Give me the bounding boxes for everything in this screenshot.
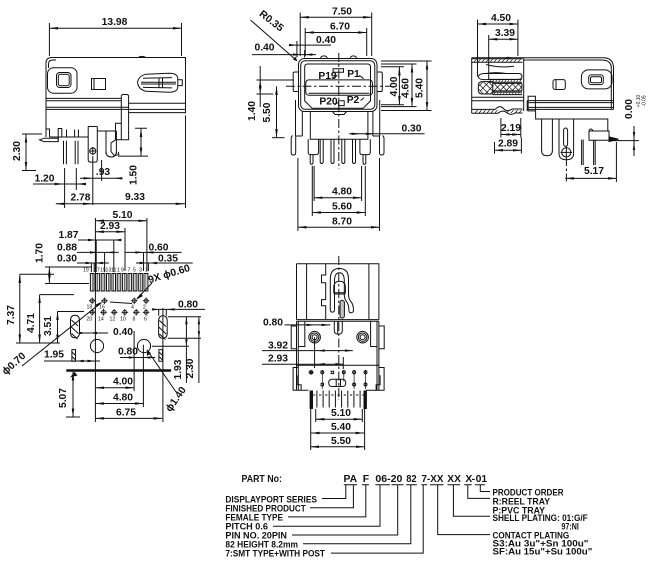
svg-text:9.33: 9.33 bbox=[125, 192, 145, 203]
view D pin numbers top bbox=[83, 268, 148, 274]
view B center lines bbox=[286, 85, 391, 87]
view D upper holes bbox=[89, 298, 150, 305]
dim 7.50 bbox=[300, 16, 372, 18]
view E center stadium bbox=[329, 379, 346, 386]
svg-text:01: 01 bbox=[476, 474, 488, 485]
svg-text:10: 10 bbox=[120, 317, 126, 323]
dim 0.40 (view D) bbox=[80, 332, 108, 334]
svg-text:0.40: 0.40 bbox=[316, 35, 336, 46]
view C mid verticals bbox=[524, 58, 528, 111]
svg-text:2: 2 bbox=[143, 305, 146, 311]
dim 13.98 bbox=[49, 23, 181, 56]
view A left boss bbox=[48, 68, 78, 93]
view B shell bottom bump bbox=[333, 112, 347, 115]
dim 0.35 bbox=[136, 262, 193, 264]
view B side ears bbox=[293, 72, 298, 92]
dim 0.30 right (view B) bbox=[349, 133, 424, 135]
view E pad row 2 bbox=[321, 383, 323, 385]
svg-text:2.93: 2.93 bbox=[100, 221, 120, 232]
view A foot plate bbox=[40, 138, 59, 141]
svg-text:4.00: 4.00 bbox=[389, 76, 400, 96]
view E center slot opening bbox=[334, 321, 342, 334]
svg-text:7-XX: 7-XX bbox=[422, 474, 444, 485]
view E teeth comb bbox=[311, 391, 365, 410]
dim 1.20 bbox=[33, 183, 84, 185]
svg-text:1: 1 bbox=[117, 268, 120, 274]
view E castellated channel bbox=[322, 264, 326, 320]
view D small tabs bbox=[72, 350, 76, 362]
svg-text:06-20: 06-20 bbox=[375, 474, 402, 485]
dims 7.37 4.71 3.51 bbox=[19, 274, 21, 343]
svg-text:0.80: 0.80 bbox=[118, 347, 138, 358]
view D lower holes bbox=[89, 309, 150, 316]
view E bottom edge bbox=[301, 389, 376, 391]
svg-text:3.51: 3.51 bbox=[43, 316, 54, 336]
svg-text:5.50: 5.50 bbox=[262, 102, 273, 122]
view C dense band 1 bbox=[489, 79, 522, 82]
view E latch loop inner bbox=[335, 273, 349, 311]
legend connector lines right bbox=[480, 485, 490, 492]
dim 0.80 (view E) bbox=[285, 324, 331, 326]
svg-text:5.50: 5.50 bbox=[331, 436, 351, 447]
view A leg pins bbox=[64, 141, 79, 165]
dim 1.40 (view B left) bbox=[259, 80, 261, 94]
svg-text:18: 18 bbox=[87, 305, 93, 311]
view C right boss bbox=[581, 70, 612, 89]
legend connector lines left bbox=[322, 485, 346, 499]
view C tab bbox=[528, 96, 535, 111]
svg-text:PA: PA bbox=[344, 474, 358, 485]
view C below block lines bbox=[472, 97, 524, 101]
svg-text:4.00: 4.00 bbox=[113, 377, 133, 388]
view A band lines bbox=[46, 98, 186, 112]
view C small rect bbox=[553, 80, 565, 90]
svg-text:2.19: 2.19 bbox=[501, 123, 521, 134]
svg-text:13.98: 13.98 bbox=[102, 17, 128, 28]
view E mid inner frame bbox=[298, 321, 377, 346]
svg-text:0.60: 0.60 bbox=[148, 242, 168, 253]
view C right section lines bbox=[527, 101, 613, 110]
svg-text:4.60: 4.60 bbox=[401, 78, 412, 98]
dim 5.07 bbox=[72, 372, 74, 417]
dim 3.39 bbox=[489, 38, 518, 40]
dim 2.93 bbox=[95, 231, 125, 233]
dim 0.40 lower-left bbox=[252, 54, 316, 56]
svg-text:12: 12 bbox=[110, 317, 116, 323]
svg-text:0.80: 0.80 bbox=[263, 318, 283, 329]
svg-text:P20: P20 bbox=[319, 96, 338, 107]
svg-text:1.20: 1.20 bbox=[34, 174, 54, 185]
view C leaf spring bbox=[479, 73, 523, 80]
dims below view B: 4.80 5.60 8.70 bbox=[314, 197, 362, 199]
dim 2.78 / 9.33 bbox=[56, 203, 186, 205]
svg-text:ϕ1.40: ϕ1.40 bbox=[164, 385, 189, 414]
dim 2.89 bbox=[495, 149, 522, 151]
view E lower section boundary bbox=[297, 364, 379, 366]
svg-text:R0.35: R0.35 bbox=[257, 9, 286, 35]
dim .93 bbox=[80, 177, 123, 179]
svg-text:5.60: 5.60 bbox=[332, 202, 352, 213]
svg-text:0.40: 0.40 bbox=[113, 327, 133, 338]
dim 0.40 upper bbox=[289, 44, 331, 46]
view A boss hole bbox=[57, 73, 72, 88]
svg-text:6: 6 bbox=[144, 317, 147, 323]
svg-text:XX: XX bbox=[447, 474, 461, 485]
svg-text:3: 3 bbox=[139, 268, 142, 274]
svg-text:7:SMT TYPE+WITH POST: 7:SMT TYPE+WITH POST bbox=[225, 549, 325, 559]
view B bottom center tab bbox=[339, 101, 345, 106]
view D ovals bbox=[71, 315, 80, 339]
svg-text:2.78: 2.78 bbox=[70, 193, 90, 204]
svg-text:0.40: 0.40 bbox=[254, 43, 274, 54]
dim 1.87 bbox=[78, 239, 121, 241]
view E pad row 1 bbox=[310, 371, 334, 374]
dim 0.80 mid (view D) bbox=[120, 357, 155, 359]
svg-text:5.17: 5.17 bbox=[584, 166, 604, 177]
svg-text:1.50: 1.50 bbox=[129, 165, 140, 185]
dims right of view B: 4.00 4.60 5.40 bbox=[398, 67, 400, 105]
svg-text:4.80: 4.80 bbox=[113, 393, 133, 404]
dim 6.70 bbox=[305, 32, 367, 34]
svg-text:1.95: 1.95 bbox=[44, 350, 64, 361]
view A latch spring bbox=[138, 73, 178, 92]
dim 2.93 (view E) bbox=[262, 363, 343, 365]
legend labels left bbox=[225, 495, 325, 559]
svg-text:2.30: 2.30 bbox=[12, 141, 23, 161]
view C hatch band top bbox=[472, 59, 523, 62]
svg-text:6.70: 6.70 bbox=[330, 22, 350, 33]
svg-text:P19: P19 bbox=[318, 71, 337, 82]
dim 1.70 bbox=[48, 267, 50, 284]
svg-text:5: 5 bbox=[133, 268, 136, 274]
svg-text:5.07: 5.07 bbox=[58, 388, 69, 408]
dims 4.00 4.80 6.75 bbox=[95, 387, 134, 389]
svg-text:5.10: 5.10 bbox=[331, 408, 351, 419]
view B legs bbox=[291, 100, 302, 155]
view A post circle bbox=[90, 148, 96, 154]
view E screw holes bbox=[309, 331, 321, 343]
svg-text:11: 11 bbox=[111, 268, 116, 274]
svg-text:2.89: 2.89 bbox=[498, 139, 518, 150]
view A tab strip bbox=[111, 95, 129, 156]
view C crosshatch block bbox=[478, 82, 493, 94]
svg-text:3.39: 3.39 bbox=[495, 28, 515, 39]
dim 0.80 top right bbox=[152, 308, 205, 310]
svg-text:1.93: 1.93 bbox=[173, 359, 184, 379]
svg-text:20: 20 bbox=[87, 317, 93, 323]
view A top-left corner inner bbox=[49, 60, 57, 68]
view E mid section bbox=[297, 320, 379, 391]
svg-text:5.40: 5.40 bbox=[331, 422, 351, 433]
svg-text:-0.05: -0.05 bbox=[642, 95, 648, 107]
dim 2.19 bbox=[501, 134, 521, 136]
view C bottom assembly bbox=[536, 111, 608, 160]
svg-text:8.70: 8.70 bbox=[332, 216, 352, 227]
view B D-opening bbox=[305, 64, 371, 108]
legend labels right bbox=[493, 488, 593, 557]
svg-text:2.93: 2.93 bbox=[268, 354, 288, 365]
svg-text:7.37: 7.37 bbox=[6, 305, 17, 325]
dim 5.17 bbox=[565, 177, 616, 179]
view E center slot shaded bbox=[340, 300, 344, 318]
svg-text:0.30: 0.30 bbox=[401, 124, 421, 135]
view E top section bbox=[297, 264, 379, 320]
svg-text:8: 8 bbox=[133, 317, 136, 323]
svg-text:.93: .93 bbox=[96, 167, 111, 178]
dim 0.60 bbox=[125, 251, 182, 253]
dim 1.50 bbox=[140, 128, 142, 156]
svg-text:F: F bbox=[363, 474, 369, 485]
dims 1.93 2.30 right bbox=[152, 317, 201, 347]
svg-text:4.50: 4.50 bbox=[491, 13, 511, 24]
view A lower body outline bbox=[46, 127, 116, 163]
svg-text:2.30: 2.30 bbox=[185, 358, 196, 378]
part no underline ticks bbox=[344, 484, 485, 486]
svg-text:P1: P1 bbox=[347, 69, 360, 80]
view B plastic body bbox=[310, 112, 368, 140]
svg-text:PART No:: PART No: bbox=[242, 474, 282, 485]
view E center line bbox=[338, 256, 340, 400]
svg-text:14: 14 bbox=[98, 317, 104, 323]
svg-text:9X ϕ0.60: 9X ϕ0.60 bbox=[147, 263, 192, 286]
view B top key rect bbox=[333, 69, 343, 73]
svg-text:7: 7 bbox=[128, 268, 131, 274]
svg-text:19: 19 bbox=[83, 268, 89, 274]
view C body outline bbox=[472, 58, 614, 113]
svg-text:1: 1 bbox=[145, 268, 148, 274]
dim 4.50 bbox=[478, 23, 518, 25]
svg-text:1.87: 1.87 bbox=[58, 230, 78, 241]
svg-text:6.75: 6.75 bbox=[116, 407, 136, 418]
svg-text:0.30: 0.30 bbox=[57, 253, 77, 264]
view E wings bbox=[291, 326, 384, 349]
view B bottom posts and pins bbox=[308, 139, 370, 154]
view E pad column leads bbox=[322, 375, 365, 390]
svg-text:5.40: 5.40 bbox=[415, 78, 426, 98]
dim 0.30 (view D) bbox=[77, 262, 109, 264]
view C smile curve bbox=[486, 65, 514, 67]
view D thick board line bbox=[66, 369, 171, 372]
svg-text:7.50: 7.50 bbox=[332, 7, 352, 18]
dim 1.95 bbox=[44, 360, 100, 362]
svg-text:P2: P2 bbox=[347, 95, 360, 106]
view C dense band 2 bbox=[493, 92, 522, 95]
dim 0.88 bbox=[77, 251, 119, 253]
svg-text:0.80: 0.80 bbox=[178, 299, 198, 310]
view C bottom hatched strip with wave bbox=[472, 107, 523, 115]
view D hole numbers bbox=[87, 305, 148, 323]
view D extension verticals bbox=[91, 218, 148, 273]
view E latch dome bbox=[334, 281, 346, 294]
svg-text:1.40: 1.40 bbox=[247, 101, 258, 121]
view B tongue bbox=[306, 80, 373, 95]
view A small rect bbox=[92, 79, 106, 90]
svg-text:4: 4 bbox=[131, 305, 134, 311]
svg-text:17: 17 bbox=[94, 268, 100, 274]
svg-text:5.10: 5.10 bbox=[112, 210, 132, 221]
svg-text:9: 9 bbox=[121, 268, 124, 274]
svg-text:0.35: 0.35 bbox=[158, 253, 178, 264]
dim 5.10 bbox=[95, 220, 146, 222]
dim 3.92 bbox=[262, 350, 353, 352]
view B shell outer bbox=[299, 59, 378, 112]
view A body outline bbox=[46, 58, 186, 138]
svg-text:0.00: 0.00 bbox=[624, 99, 635, 119]
view D SMT pads bbox=[90, 274, 147, 292]
svg-text:1.70: 1.70 bbox=[35, 243, 46, 263]
dims below view E bbox=[316, 418, 363, 420]
dim 2.30 (view A left) bbox=[25, 134, 27, 171]
view E side hooks bbox=[293, 368, 384, 391]
svg-text:16: 16 bbox=[99, 305, 105, 311]
dim 5.50 (view B left) bbox=[276, 86, 278, 137]
svg-text:4.80: 4.80 bbox=[332, 187, 352, 198]
svg-text:82: 82 bbox=[406, 474, 417, 485]
svg-text:3.92: 3.92 bbox=[268, 341, 288, 352]
view E latch loop outer bbox=[330, 269, 353, 313]
svg-text:SF:Au 15u"+Su 100u": SF:Au 15u"+Su 100u" bbox=[493, 547, 593, 557]
view D big circles bbox=[90, 339, 103, 352]
view B top bumps bbox=[321, 56, 357, 59]
svg-text:0.88: 0.88 bbox=[57, 242, 77, 253]
svg-text:4.71: 4.71 bbox=[26, 313, 37, 333]
